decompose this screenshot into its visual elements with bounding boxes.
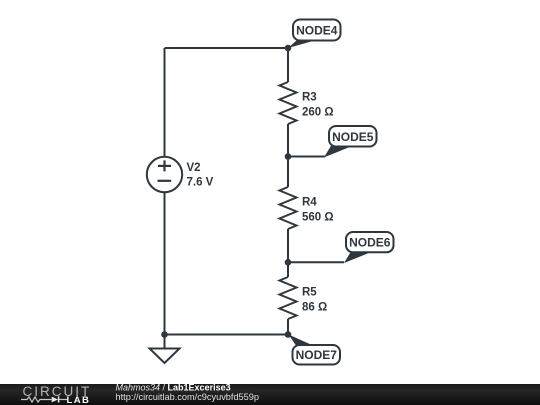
svg-text:NODE5: NODE5: [332, 130, 374, 144]
svg-text:V2: V2: [187, 162, 201, 174]
ground: [150, 335, 180, 364]
svg-text:7.6 V: 7.6 V: [187, 177, 214, 189]
svg-text:R3: R3: [302, 92, 317, 104]
junction node A top: [285, 45, 292, 52]
svg-text:NODE7: NODE7: [296, 348, 338, 362]
junction node NODE5: [285, 153, 292, 160]
svg-text:560 Ω: 560 Ω: [302, 212, 334, 224]
svg-text:R4: R4: [302, 197, 317, 209]
node NODE7 flag: [289, 335, 341, 365]
junction node NODE6: [285, 259, 292, 266]
svg-text:http://circuitlab.com/c9cyuvbf: http://circuitlab.com/c9cyuvbfd559p: [116, 392, 260, 402]
svg-text:86 Ω: 86 Ω: [302, 302, 327, 314]
wire node6 stub: [288, 261, 344, 263]
svg-text:NODE4: NODE4: [296, 24, 338, 38]
resistor R4: [280, 187, 334, 229]
wire bottom horizontal: [165, 334, 289, 336]
junction node NODE7: [285, 331, 292, 338]
resistor R3: [280, 82, 334, 124]
svg-text:R5: R5: [302, 287, 317, 299]
svg-text:LAB: LAB: [67, 395, 91, 405]
footer title text: [116, 383, 260, 403]
voltage source V2: [147, 157, 214, 192]
resistor R5: [280, 277, 328, 319]
wire top horizontal: [165, 47, 289, 49]
svg-text:260 Ω: 260 Ω: [302, 107, 334, 119]
CircuitLab logo: [21, 384, 91, 405]
wire right vertical segment node4 to R3: [287, 48, 289, 82]
wire right vertical segment R5 to bottom: [287, 319, 289, 335]
junction node ground: [161, 331, 168, 338]
svg-text:Mahmos34 / Lab1Excerise3: Mahmos34 / Lab1Excerise3: [116, 383, 231, 393]
wire left vertical lower: [164, 192, 166, 335]
footer bar: [0, 384, 540, 405]
node NODE6 flag: [344, 232, 394, 263]
svg-text:NODE6: NODE6: [349, 236, 391, 250]
wire right vertical segment R4 to R5: [287, 229, 289, 277]
wire right vertical segment R3 to R4: [287, 124, 289, 187]
wire left vertical upper: [164, 48, 166, 157]
node NODE5 flag: [324, 126, 377, 157]
node NODE4 flag: [288, 20, 341, 49]
wire node5 stub: [288, 156, 325, 158]
